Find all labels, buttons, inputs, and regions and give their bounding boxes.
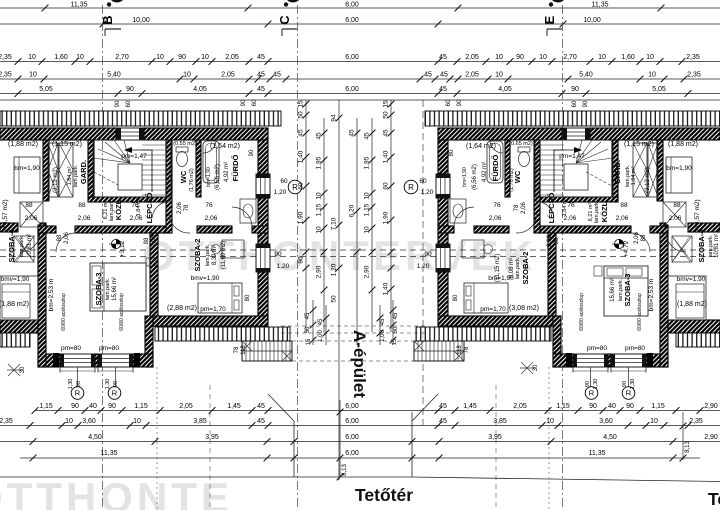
left unit step wall: [145, 316, 153, 367]
svg-text:1,00: 1,00: [380, 330, 386, 342]
svg-text:8,13: 8,13: [342, 464, 348, 476]
svg-text:(2,88 m2): (2,88 m2): [167, 305, 197, 312]
svg-text:5,05: 5,05: [652, 86, 666, 93]
svg-text:1,15: 1,15: [39, 403, 53, 410]
cross symbol 30: [520, 362, 534, 374]
dimension chain x=357: [356, 118, 358, 345]
svg-text:pm=1,47: pm=1,47: [121, 153, 147, 160]
svg-text:(6,56 m2): (6,56 m2): [472, 164, 478, 190]
svg-text:3,85: 3,85: [193, 418, 207, 425]
left unit door arcs: [20, 232, 40, 252]
svg-text:60/80 acéloszlop: 60/80 acéloszlop: [61, 293, 67, 331]
svg-text:60: 60: [446, 99, 452, 106]
svg-text:90: 90: [76, 381, 82, 387]
svg-text:2,35: 2,35: [0, 54, 12, 61]
left unit szoba-3 bed: [90, 263, 146, 311]
svg-text:60: 60: [383, 182, 390, 190]
roof projection dashed line lower: [0, 256, 720, 258]
svg-text:(1,88 m2): (1,88 m2): [8, 141, 38, 148]
svg-text:1,45: 1,45: [227, 403, 241, 410]
svg-text:45: 45: [439, 403, 447, 410]
svg-text:1,20: 1,20: [421, 189, 434, 196]
svg-text:R: R: [75, 389, 81, 398]
left unit interior wall mid B: [75, 226, 169, 233]
svg-text:1,30: 1,30: [593, 379, 599, 390]
svg-text:5,40: 5,40: [107, 72, 121, 79]
svg-text:KÖZL: KÖZL: [600, 201, 609, 222]
axis E underline: [547, 28, 562, 30]
svg-text:76: 76: [493, 202, 501, 209]
bottom boundary line: [0, 476, 412, 478]
right unit bottom eaves band east: [416, 327, 551, 341]
svg-text:11,35: 11,35: [71, 2, 88, 9]
radiator symbol R: [585, 387, 598, 400]
svg-text:10: 10: [646, 54, 654, 61]
svg-text:10: 10: [76, 54, 84, 61]
svg-text:90: 90: [585, 381, 591, 387]
svg-text:R: R: [112, 389, 118, 398]
svg-text:2,06: 2,06: [205, 215, 218, 222]
right unit west lower wall: [660, 225, 668, 367]
svg-text:88: 88: [57, 234, 63, 241]
svg-text:10: 10: [539, 54, 547, 61]
radiator symbol R: [622, 387, 635, 400]
svg-text:(11,15 m2): (11,15 m2): [495, 254, 501, 283]
svg-text:(1,76 m2): (1,76 m2): [509, 168, 515, 192]
dimension row 3: [0, 93, 720, 95]
svg-text:45: 45: [439, 418, 447, 425]
svg-text:lam.park.: lam.park.: [515, 256, 521, 279]
svg-text:2,35: 2,35: [686, 54, 700, 61]
axis head blob E: [552, 0, 565, 3]
left unit szoba-2 desk: [222, 240, 244, 258]
dimension chain x=339: [338, 100, 340, 480]
axis bullet E: [549, 2, 553, 6]
dimension row 1: [0, 61, 720, 63]
svg-text:SZOBA-3: SZOBA-3: [94, 273, 103, 306]
svg-text:10: 10: [495, 72, 503, 79]
svg-text:10: 10: [201, 54, 209, 61]
left unit level mark: [111, 239, 120, 248]
svg-text:15,66 m²: 15,66 m²: [610, 278, 616, 302]
left unit balcony: [242, 341, 292, 361]
svg-text:50: 50: [331, 295, 338, 303]
svg-text:78: 78: [514, 204, 520, 211]
svg-text:6,00: 6,00: [345, 434, 359, 441]
right unit shaft with X: [648, 143, 658, 197]
axis line C: [297, 5, 299, 510]
left unit wardrobe bed top-west: [14, 157, 40, 193]
svg-text:45: 45: [273, 72, 281, 79]
svg-text:2,06: 2,06: [521, 202, 527, 214]
svg-text:90: 90: [126, 86, 134, 93]
svg-text:(1,88 m2): (1,88 m2): [677, 301, 707, 308]
axis line E: [562, 5, 564, 510]
svg-text:10,81 m²: 10,81 m²: [27, 234, 33, 258]
right unit upper side window: [436, 174, 450, 198]
svg-text:10: 10: [546, 418, 554, 425]
svg-text:4,05: 4,05: [498, 86, 512, 93]
svg-text:pm=80: pm=80: [625, 345, 645, 352]
left vertical boundary: [293, 421, 295, 477]
left unit bottom eaves band west: [0, 333, 30, 347]
left unit corridor cabinet with X: [20, 202, 43, 227]
vertical dimension 8,13 right: [682, 412, 684, 460]
svg-text:15: 15: [298, 100, 305, 108]
svg-text:10: 10: [28, 54, 36, 61]
svg-text:10: 10: [29, 72, 37, 79]
svg-text:Tetőtér: Tetőtér: [355, 485, 413, 505]
svg-text:10: 10: [650, 418, 658, 425]
svg-text:2,05: 2,05: [221, 72, 235, 79]
left unit bottom wall pier: [95, 354, 98, 367]
right unit partition 2: [612, 140, 618, 197]
svg-text:90: 90: [424, 251, 432, 258]
dotted vertical from right step corner: [548, 367, 550, 510]
svg-text:50: 50: [393, 326, 399, 333]
svg-text:3,95: 3,95: [488, 434, 502, 441]
svg-text:2,05: 2,05: [179, 403, 193, 410]
svg-text:10: 10: [183, 72, 191, 79]
left chamfer line: [268, 394, 294, 421]
left unit right wall middle: [258, 198, 268, 244]
svg-text:88: 88: [144, 237, 150, 244]
svg-text:lam.park.: lam.park.: [105, 277, 111, 300]
right unit interior wall mid D: [438, 226, 454, 233]
svg-text:45: 45: [318, 318, 324, 325]
svg-text:2,35: 2,35: [687, 72, 701, 79]
svg-text:4,92 m²: 4,92 m²: [224, 162, 230, 182]
axis C underline: [282, 28, 297, 30]
svg-text:(1,64 m2): (1,64 m2): [210, 143, 240, 150]
svg-text:A-épület: A-épület: [350, 330, 369, 398]
svg-text:1,30: 1,30: [630, 379, 636, 390]
svg-text:45: 45: [257, 403, 265, 410]
left unit radiator leads: [77, 367, 79, 387]
left unit staircase: [93, 140, 171, 197]
svg-text:(3,12 m2): (3,12 m2): [53, 167, 59, 193]
svg-text:(1,76 m2): (1,76 m2): [189, 168, 195, 192]
svg-text:10: 10: [495, 54, 503, 61]
svg-text:45: 45: [257, 86, 265, 93]
dimension chain x=372: [371, 118, 373, 332]
svg-text:(3,12 m2): (3,12 m2): [645, 167, 651, 193]
left unit bathroom vanity: [240, 199, 256, 223]
svg-text:1,95: 1,95: [316, 156, 323, 169]
axis bullet C: [284, 2, 288, 6]
svg-text:1,15: 1,15: [134, 403, 148, 410]
svg-text:10: 10: [65, 418, 73, 425]
svg-text:2,06: 2,06: [669, 215, 682, 222]
right unit interior wall west A: [688, 223, 720, 232]
svg-text:2,06: 2,06: [64, 232, 70, 244]
svg-text:76: 76: [567, 202, 575, 209]
svg-text:10,00: 10,00: [583, 17, 601, 24]
svg-text:GARD.: GARD.: [79, 160, 88, 184]
svg-text:2,90: 2,90: [316, 265, 323, 278]
left unit bottom window B: [98, 354, 133, 367]
right unit steel posts: [647, 353, 653, 367]
svg-text:bmv=1,90: bmv=1,90: [191, 275, 220, 282]
svg-text:90: 90: [71, 403, 79, 410]
axis line D: [422, 100, 424, 425]
svg-text:15: 15: [383, 100, 390, 108]
svg-text:30: 30: [533, 364, 539, 371]
dimension row 2: [0, 78, 720, 80]
svg-text:2,90: 2,90: [704, 434, 718, 441]
bottom dimension row A: [35, 410, 720, 412]
svg-text:2,05: 2,05: [465, 54, 479, 61]
right unit right wall lower: [438, 272, 448, 316]
svg-text:6,00: 6,00: [345, 54, 359, 61]
right unit szoba-4 cabinet 2 with X: [672, 236, 690, 262]
svg-text:pm=80: pm=80: [587, 345, 607, 352]
dimension chain x=324: [323, 118, 325, 332]
right unit interior wall west B: [660, 223, 666, 232]
svg-text:1,95: 1,95: [364, 156, 371, 169]
svg-text:50: 50: [383, 111, 390, 119]
right unit west closet outline: [668, 276, 706, 320]
svg-text:78: 78: [464, 346, 470, 353]
svg-text:60: 60: [280, 178, 288, 185]
svg-text:2,06: 2,06: [78, 215, 91, 222]
svg-text:45: 45: [257, 54, 265, 61]
left unit lower side window: [256, 244, 270, 272]
right unit level mark: [614, 239, 623, 248]
right unit interior wall mid B: [537, 226, 631, 233]
svg-text:+4,72: +4,72: [623, 240, 630, 257]
right unit bottom wall east section: [438, 316, 556, 326]
svg-text:bmv=1,90: bmv=1,90: [1, 276, 30, 283]
svg-text:94: 94: [331, 114, 338, 122]
svg-text:bm=1,90: bm=1,90: [666, 165, 692, 172]
right vertical boundary: [411, 412, 413, 477]
right unit step wall: [553, 316, 561, 367]
svg-text:(1,15 m2): (1,15 m2): [624, 141, 654, 148]
svg-text:bm=1,90: bm=1,90: [206, 167, 212, 187]
svg-text:lam.park.: lam.park.: [618, 278, 624, 301]
svg-text:30: 30: [20, 366, 26, 373]
svg-text:11,35: 11,35: [101, 450, 118, 457]
svg-text:10: 10: [598, 54, 606, 61]
left unit bottom wall east section: [150, 316, 268, 326]
left unit szoba-4 cabinet 2 with X: [16, 236, 34, 262]
svg-text:90: 90: [108, 403, 116, 410]
svg-text:lam.park.: lam.park.: [109, 198, 115, 221]
dimension chain x=306: [305, 100, 307, 332]
right unit staircase: [535, 140, 613, 197]
svg-text:45: 45: [305, 312, 311, 319]
svg-text:2,05: 2,05: [465, 72, 479, 79]
left unit top wall window: [116, 128, 144, 140]
right unit door arcs: [666, 232, 686, 252]
svg-text:15: 15: [306, 338, 312, 345]
right unit bathroom vanity: [450, 199, 466, 223]
svg-text:40: 40: [608, 403, 616, 410]
svg-text:8,39 m²: 8,39 m²: [212, 245, 218, 265]
svg-text:90: 90: [516, 54, 524, 61]
right unit bottom wall piece B: [553, 354, 573, 367]
svg-text:45: 45: [316, 132, 323, 140]
axis head blob B: [111, 0, 124, 3]
right unit interior wall mid C: [474, 226, 509, 233]
dimension chain x=391: [390, 100, 392, 332]
svg-text:1,30: 1,30: [105, 379, 111, 390]
svg-text:6,00: 6,00: [345, 450, 359, 457]
right chamfer line: [412, 394, 438, 421]
vertical dimension 8,13 center: [339, 400, 341, 477]
svg-text:90: 90: [115, 100, 121, 107]
svg-text:FÜRDŐ: FÜRDŐ: [491, 155, 500, 182]
axis bullet B: [107, 2, 111, 6]
left unit top eaves band: [0, 111, 281, 126]
svg-text:(14,57 m2): (14,57 m2): [2, 199, 9, 230]
svg-text:SZOBA-2: SZOBA-2: [193, 239, 202, 272]
svg-text:50: 50: [298, 111, 305, 119]
svg-text:90: 90: [457, 99, 463, 106]
left unit partition 3: [166, 140, 172, 233]
svg-text:90: 90: [178, 54, 186, 61]
left unit wc toilet: [176, 147, 188, 152]
right unit stair bottom wall: [535, 197, 618, 202]
svg-text:(11,60 m2): (11,60 m2): [221, 241, 227, 270]
svg-text:(1,88 m2): (1,88 m2): [0, 301, 29, 308]
top dimension line 11,35 / 6,00 / 11,35: [0, 7, 720, 9]
svg-text:45: 45: [298, 129, 305, 137]
svg-text:2,70: 2,70: [563, 54, 577, 61]
svg-text:45: 45: [364, 132, 371, 140]
svg-text:60/80 acéloszlop: 60/80 acéloszlop: [119, 293, 125, 331]
svg-text:2,06: 2,06: [616, 215, 629, 222]
left unit interior wall mid D: [252, 226, 268, 233]
bottom dimension row C: [0, 441, 720, 443]
svg-text:40: 40: [89, 403, 97, 410]
svg-text:90: 90: [113, 381, 119, 387]
svg-text:88: 88: [641, 234, 647, 241]
svg-text:1,40: 1,40: [383, 150, 390, 163]
axis head blob C: [287, 0, 300, 3]
svg-text:1,20: 1,20: [274, 189, 287, 196]
svg-text:lam.park.: lam.park.: [73, 164, 79, 187]
svg-text:90: 90: [274, 251, 282, 258]
bottom center dimension cluster right: [392, 300, 394, 345]
svg-text:90: 90: [571, 86, 579, 93]
svg-text:11,35: 11,35: [589, 450, 606, 457]
left unit stair bottom wall: [88, 197, 171, 202]
svg-text:7,10: 7,10: [331, 217, 338, 230]
bottom center dimension cluster left: [312, 300, 314, 345]
light vertical dashed right: [495, 385, 497, 510]
bottom dimension row B: [0, 425, 720, 427]
svg-text:1,84 m²: 1,84 m²: [562, 198, 568, 217]
svg-text:lam.park.: lam.park.: [19, 234, 25, 257]
svg-text:80: 80: [453, 294, 459, 301]
svg-text:90: 90: [249, 149, 255, 156]
svg-text:(0,55 m2): (0,55 m2): [173, 141, 197, 147]
svg-text:2,05: 2,05: [513, 403, 527, 410]
right unit szoba-4 cabinet with X: [672, 236, 692, 262]
left unit bathtub: [203, 141, 219, 183]
left unit bottom wall piece B: [133, 354, 153, 367]
svg-text:11,35: 11,35: [592, 2, 609, 9]
svg-text:(0,65 m2): (0,65 m2): [509, 141, 533, 147]
svg-text:6,21 m²: 6,21 m²: [588, 203, 594, 222]
left unit top wall segment A: [0, 128, 116, 140]
right unit interior wall mid A: [650, 226, 668, 233]
svg-text:45: 45: [380, 318, 386, 325]
svg-text:LÉPCSŐ: LÉPCSŐ: [547, 192, 556, 223]
right unit bottom wall piece A: [646, 354, 668, 367]
light vertical dashed left: [209, 385, 211, 510]
svg-text:90: 90: [589, 403, 597, 410]
svg-text:4,05: 4,05: [193, 86, 207, 93]
left unit west lower wall: [38, 225, 46, 367]
svg-text:LÉPCSŐ: LÉPCSŐ: [145, 192, 154, 223]
right unit bottom wall pier: [608, 354, 611, 367]
left unit shaft with X: [48, 143, 58, 197]
svg-text:60: 60: [298, 182, 305, 190]
right unit top eaves band: [425, 111, 720, 126]
svg-text:118: 118: [457, 345, 463, 355]
left unit interior wall mid A: [38, 226, 56, 233]
right unit partition 4: [505, 140, 510, 197]
svg-text:bmv=1,90: bmv=1,90: [677, 276, 706, 283]
svg-text:45: 45: [257, 72, 265, 79]
svg-text:bm=1,90: bm=1,90: [462, 167, 468, 187]
svg-text:+3,12: +3,12: [119, 240, 126, 257]
svg-text:3,85: 3,85: [493, 418, 507, 425]
svg-text:3,60: 3,60: [599, 418, 613, 425]
svg-text:bm=2,53 m: bm=2,53 m: [48, 279, 55, 312]
right unit wardrobe bed top-west: [666, 157, 692, 193]
svg-text:10,00: 10,00: [132, 17, 150, 24]
left unit bottom wall piece A: [38, 354, 60, 367]
svg-text:pm=1,70: pm=1,70: [200, 306, 226, 313]
right unit right wall middle: [438, 198, 448, 244]
svg-text:1,15: 1,15: [556, 403, 570, 410]
svg-text:1,90: 1,90: [383, 211, 390, 224]
svg-text:1,20: 1,20: [417, 263, 430, 270]
svg-text:4,50: 4,50: [603, 434, 617, 441]
svg-text:45: 45: [383, 129, 390, 137]
svg-text:lam.park.: lam.park.: [205, 243, 211, 266]
svg-text:10: 10: [648, 72, 656, 79]
svg-text:1,15: 1,15: [651, 403, 665, 410]
svg-text:15,66 m²: 15,66 m²: [112, 277, 118, 301]
right unit wc toilet: [518, 147, 530, 152]
right unit radiator leads: [628, 367, 630, 387]
right unit partition 5: [548, 233, 556, 316]
svg-text:1,20: 1,20: [331, 263, 338, 276]
left unit partition 1: [43, 140, 49, 201]
svg-text:SZOBA-4: SZOBA-4: [697, 229, 706, 263]
svg-text:90: 90: [626, 403, 634, 410]
left unit szoba-2 bed: [198, 283, 242, 313]
left unit bottom eaves band east: [155, 327, 290, 341]
svg-text:GARD.: GARD.: [613, 160, 622, 184]
left unit partition 4: [196, 140, 201, 197]
left unit bottom window A: [60, 354, 95, 367]
svg-text:60: 60: [572, 100, 578, 107]
axis line B: [102, 5, 104, 510]
radiator symbol R side: [288, 180, 302, 194]
radiator symbol R side: [404, 180, 418, 194]
svg-text:3,60: 3,60: [82, 418, 96, 425]
svg-text:45: 45: [440, 72, 448, 79]
right unit top wall segment B: [438, 128, 562, 140]
svg-text:2,06: 2,06: [634, 232, 640, 244]
svg-text:2,35: 2,35: [689, 418, 703, 425]
